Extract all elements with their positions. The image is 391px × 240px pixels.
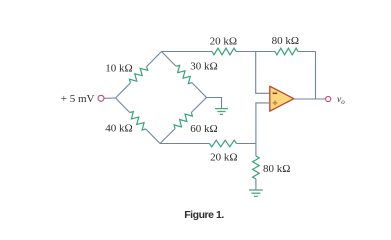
wire right vertical feedback down to output [315, 52, 317, 100]
resistor 80 kOhm top (feedback) zigzag [275, 48, 298, 55]
wire source to bridge left node [104, 97, 115, 99]
svg-text:10 kΩ: 10 kΩ [105, 62, 132, 74]
wire op-amp output to terminal [294, 98, 326, 100]
wire bridge top-right arm lead1 [162, 52, 177, 67]
wire bridge top-left arm lead2 [147, 52, 162, 67]
wire 80k to right corner [298, 51, 316, 53]
resistor 80 kOhm bottom zigzag [253, 156, 260, 179]
resistor 10 kOhm R1 zigzag [129, 67, 147, 83]
svg-text:20 kΩ: 20 kΩ [210, 35, 237, 47]
svg-text:+ 5 mV: + 5 mV [61, 93, 95, 105]
wire 80k to ground [255, 179, 257, 190]
wire top node to 20k [162, 51, 213, 53]
ground bottom [249, 190, 263, 196]
output terminal vo [326, 96, 331, 101]
ground middle [215, 109, 228, 115]
wire junction down to 80k vertical [255, 144, 257, 157]
wire bridge bottom-left arm lead2 [146, 129, 160, 144]
svg-text:Figure 1.: Figure 1. [184, 209, 224, 221]
wire bridge bottom-right arm lead1 [160, 129, 175, 144]
svg-text:vo: vo [337, 95, 345, 106]
resistor 40 kOhm R3 zigzag [130, 112, 146, 130]
svg-text:80 kΩ: 80 kΩ [263, 163, 290, 175]
svg-text:40 kΩ: 40 kΩ [105, 123, 132, 135]
svg-text:80 kΩ: 80 kΩ [272, 35, 299, 47]
wire 20k to 80k with junction node [236, 51, 275, 53]
svg-text:30 kΩ: 30 kΩ [190, 61, 217, 73]
resistor 20 kOhm bottom zigzag [210, 140, 237, 147]
resistor 30 kOhm R2 zigzag [176, 65, 192, 83]
wire junction to inverting input [256, 52, 270, 94]
wire bottom node to 20k bottom [160, 143, 210, 145]
resistor 60 kOhm R4 zigzag [174, 112, 192, 128]
wire bridge top-right arm lead2 [192, 83, 207, 98]
op-amp U1 [270, 86, 294, 111]
svg-text:60 kΩ: 60 kΩ [190, 123, 217, 135]
wire right node to middle ground [207, 98, 222, 109]
wire 20k bottom to junction [237, 143, 256, 145]
wire noninverting input to bottom junction [256, 103, 270, 144]
wire bridge top-left arm lead1 [116, 83, 131, 98]
wire bridge bottom-left arm lead1 [116, 98, 130, 113]
input terminal +5mV [98, 95, 104, 101]
wire bridge bottom-right arm lead2 [191, 98, 206, 113]
svg-text:20 kΩ: 20 kΩ [210, 152, 237, 164]
resistor 20 kOhm top zigzag [212, 48, 236, 55]
